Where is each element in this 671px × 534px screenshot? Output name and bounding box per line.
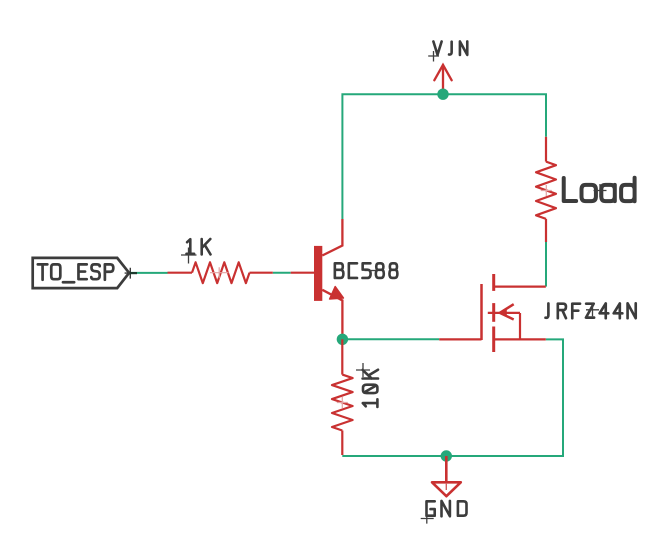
- mosfet Q2 gate bar: [480, 284, 483, 340]
- wire resistor R1 to transistor base: [273, 272, 291, 274]
- label 1K: [187, 239, 211, 254]
- junction node ground rail: [441, 450, 452, 461]
- anchor cross Load label: [594, 184, 607, 197]
- anchor cross GND label: [421, 514, 434, 524]
- anchor cross 1K label: [181, 248, 197, 264]
- mosfet Q2 body connection: [519, 313, 521, 339]
- mosfet Q2 drain lead: [494, 286, 546, 288]
- resistor Load: [536, 137, 556, 242]
- pin end marker cross TO_ESP: [125, 268, 131, 279]
- resistor R1 1K: [168, 262, 273, 283]
- ground symbol GND: [432, 456, 461, 496]
- transistor Q1 collector lead: [322, 219, 342, 256]
- anchor cross 10K symbol: [337, 397, 348, 408]
- mosfet Q2 source lead: [494, 338, 546, 340]
- pin end marker overlap on wire: [130, 272, 137, 274]
- transistor Q1 emitter arrow: [330, 287, 344, 299]
- label Load: [564, 178, 635, 202]
- anchor cross GND symbol: [445, 483, 447, 490]
- transistor Q1 base pin: [291, 272, 314, 274]
- transistor Q1 base bar: [314, 246, 322, 301]
- anchor cross 10K label: [356, 363, 370, 377]
- label GND: [427, 501, 467, 516]
- wire mosfet source to bottom rail: [342, 339, 563, 456]
- anchor cross IRFZ44N label: [586, 303, 599, 316]
- mosfet Q2 channel segment middle: [492, 303, 495, 322]
- mosfet Q2 channel segment bottom: [492, 327, 495, 353]
- junction node emitter: [337, 334, 348, 345]
- resistor R2 10K: [332, 339, 353, 455]
- power symbol VIN arrow: [434, 65, 451, 94]
- wire load bottom to mosfet drain: [545, 242, 547, 287]
- anchor cross Load symbol: [541, 185, 552, 196]
- label VIN: [433, 41, 467, 54]
- mosfet Q2 gate pin: [439, 338, 481, 340]
- wire emitter node to mosfet gate: [342, 338, 439, 340]
- hierarchical label TO_ESP outline: [33, 258, 129, 288]
- anchor cross R1 symbol: [210, 267, 229, 278]
- mosfet Q2 body diode arrow: [488, 304, 520, 319]
- wire hierarchical label to resistor R1: [131, 272, 168, 274]
- label TO_ESP text: [38, 264, 113, 282]
- label BC588: [335, 263, 398, 278]
- junction node VIN rail: [437, 89, 448, 100]
- transistor Q1 emitter lead: [322, 290, 342, 340]
- wire top rail with left and right drops: [342, 94, 546, 219]
- label 10K rotated: [363, 370, 378, 407]
- anchor cross BC588 label: [365, 270, 377, 272]
- mosfet Q2 channel segment top: [492, 274, 495, 291]
- label IRFZ44N: [545, 303, 635, 318]
- anchor cross VIN: [428, 51, 439, 62]
